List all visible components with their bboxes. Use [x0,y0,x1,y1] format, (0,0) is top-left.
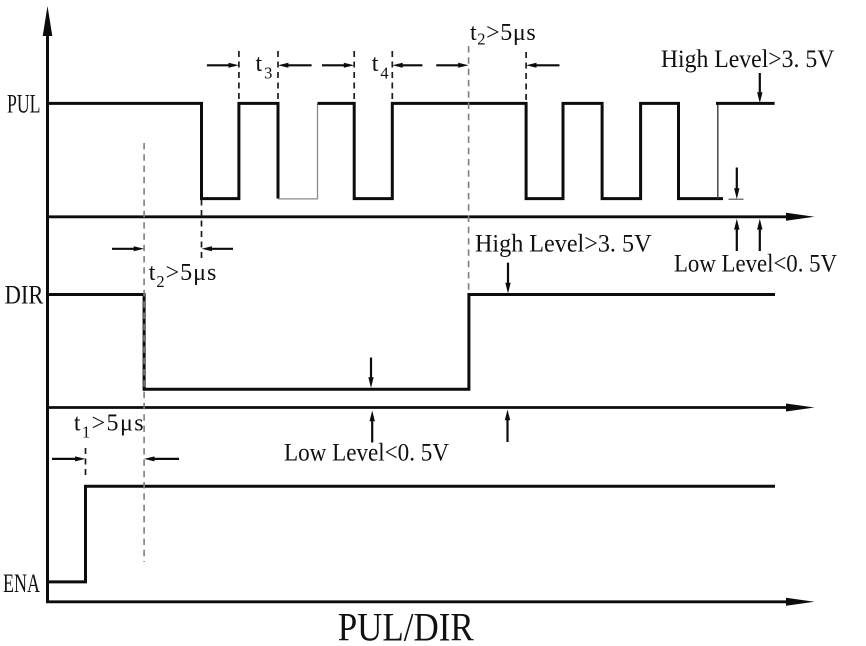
svg-text:Low Level<0. 5V: Low Level<0. 5V [284,440,449,467]
PUL low level tick at arrow [729,198,744,200]
svg-text:PUL: PUL [7,90,41,119]
svg-text:DIR: DIR [5,280,44,309]
long dashed reference line at DIR rising edge [468,46,470,294]
PUL last high segment [716,102,775,105]
PUL waveform continued [318,103,724,198]
svg-text:High Level>3. 5V: High Level>3. 5V [661,46,835,73]
dimension line t2 lower right arrow [202,246,234,251]
dashed tick at ENA rising edge [85,448,87,479]
up arrow to PUL axis (right) [757,219,762,251]
down arrow to DIR low level [368,358,373,389]
dashed tick at PUL falling edge t3 right [277,51,279,101]
PUL last rising edge (thin) [717,104,719,199]
down arrow to PUL low level [734,168,739,200]
DIR waveform [48,295,776,390]
dashed tick at PUL rising edge t4 right [391,51,393,101]
ENA time axis [46,598,815,606]
dimension line t4 right arrow [392,63,422,68]
dashed tick at PUL falling edge after t2 [525,52,527,101]
ENA waveform [48,486,776,582]
DIR time axis [46,404,815,412]
dimension line t2 top right arrow [526,63,559,68]
dashed tick below PUL first falling edge [201,200,203,260]
dimension line t1 right arrow [144,456,179,461]
dashed tick at PUL falling edge t4 left [353,51,355,101]
PUL waveform [48,103,279,198]
long dashed reference line at DIR falling edge [143,143,145,562]
dimension line t2 lower left arrow [112,246,144,251]
PUL waveform faint low segment [278,103,318,198]
dimension line t3 right arrow [278,63,312,68]
up arrow to PUL axis (left) [734,219,739,251]
PUL time axis [46,213,815,221]
svg-text:Low Level<0. 5V: Low Level<0. 5V [674,251,837,278]
dimension line t3 left arrow [207,63,239,68]
down arrow to DIR high level [505,263,510,294]
down arrow to PUL high level (right) [757,73,762,103]
svg-text:PUL/DIR: PUL/DIR [338,605,474,646]
dimension line t1 left arrow [52,456,86,461]
svg-text:High Level>3. 5V: High Level>3. 5V [475,230,652,257]
svg-text:ENA: ENA [3,569,40,598]
vertical axis [43,6,53,602]
up arrow to DIR axis (left) [370,411,375,443]
up arrow to DIR axis (right) [505,410,510,443]
dashed tick at PUL rising edge t3 left [238,51,240,101]
dimension line t2 top left arrow [436,63,468,68]
dimension line t4 left arrow [322,63,354,68]
